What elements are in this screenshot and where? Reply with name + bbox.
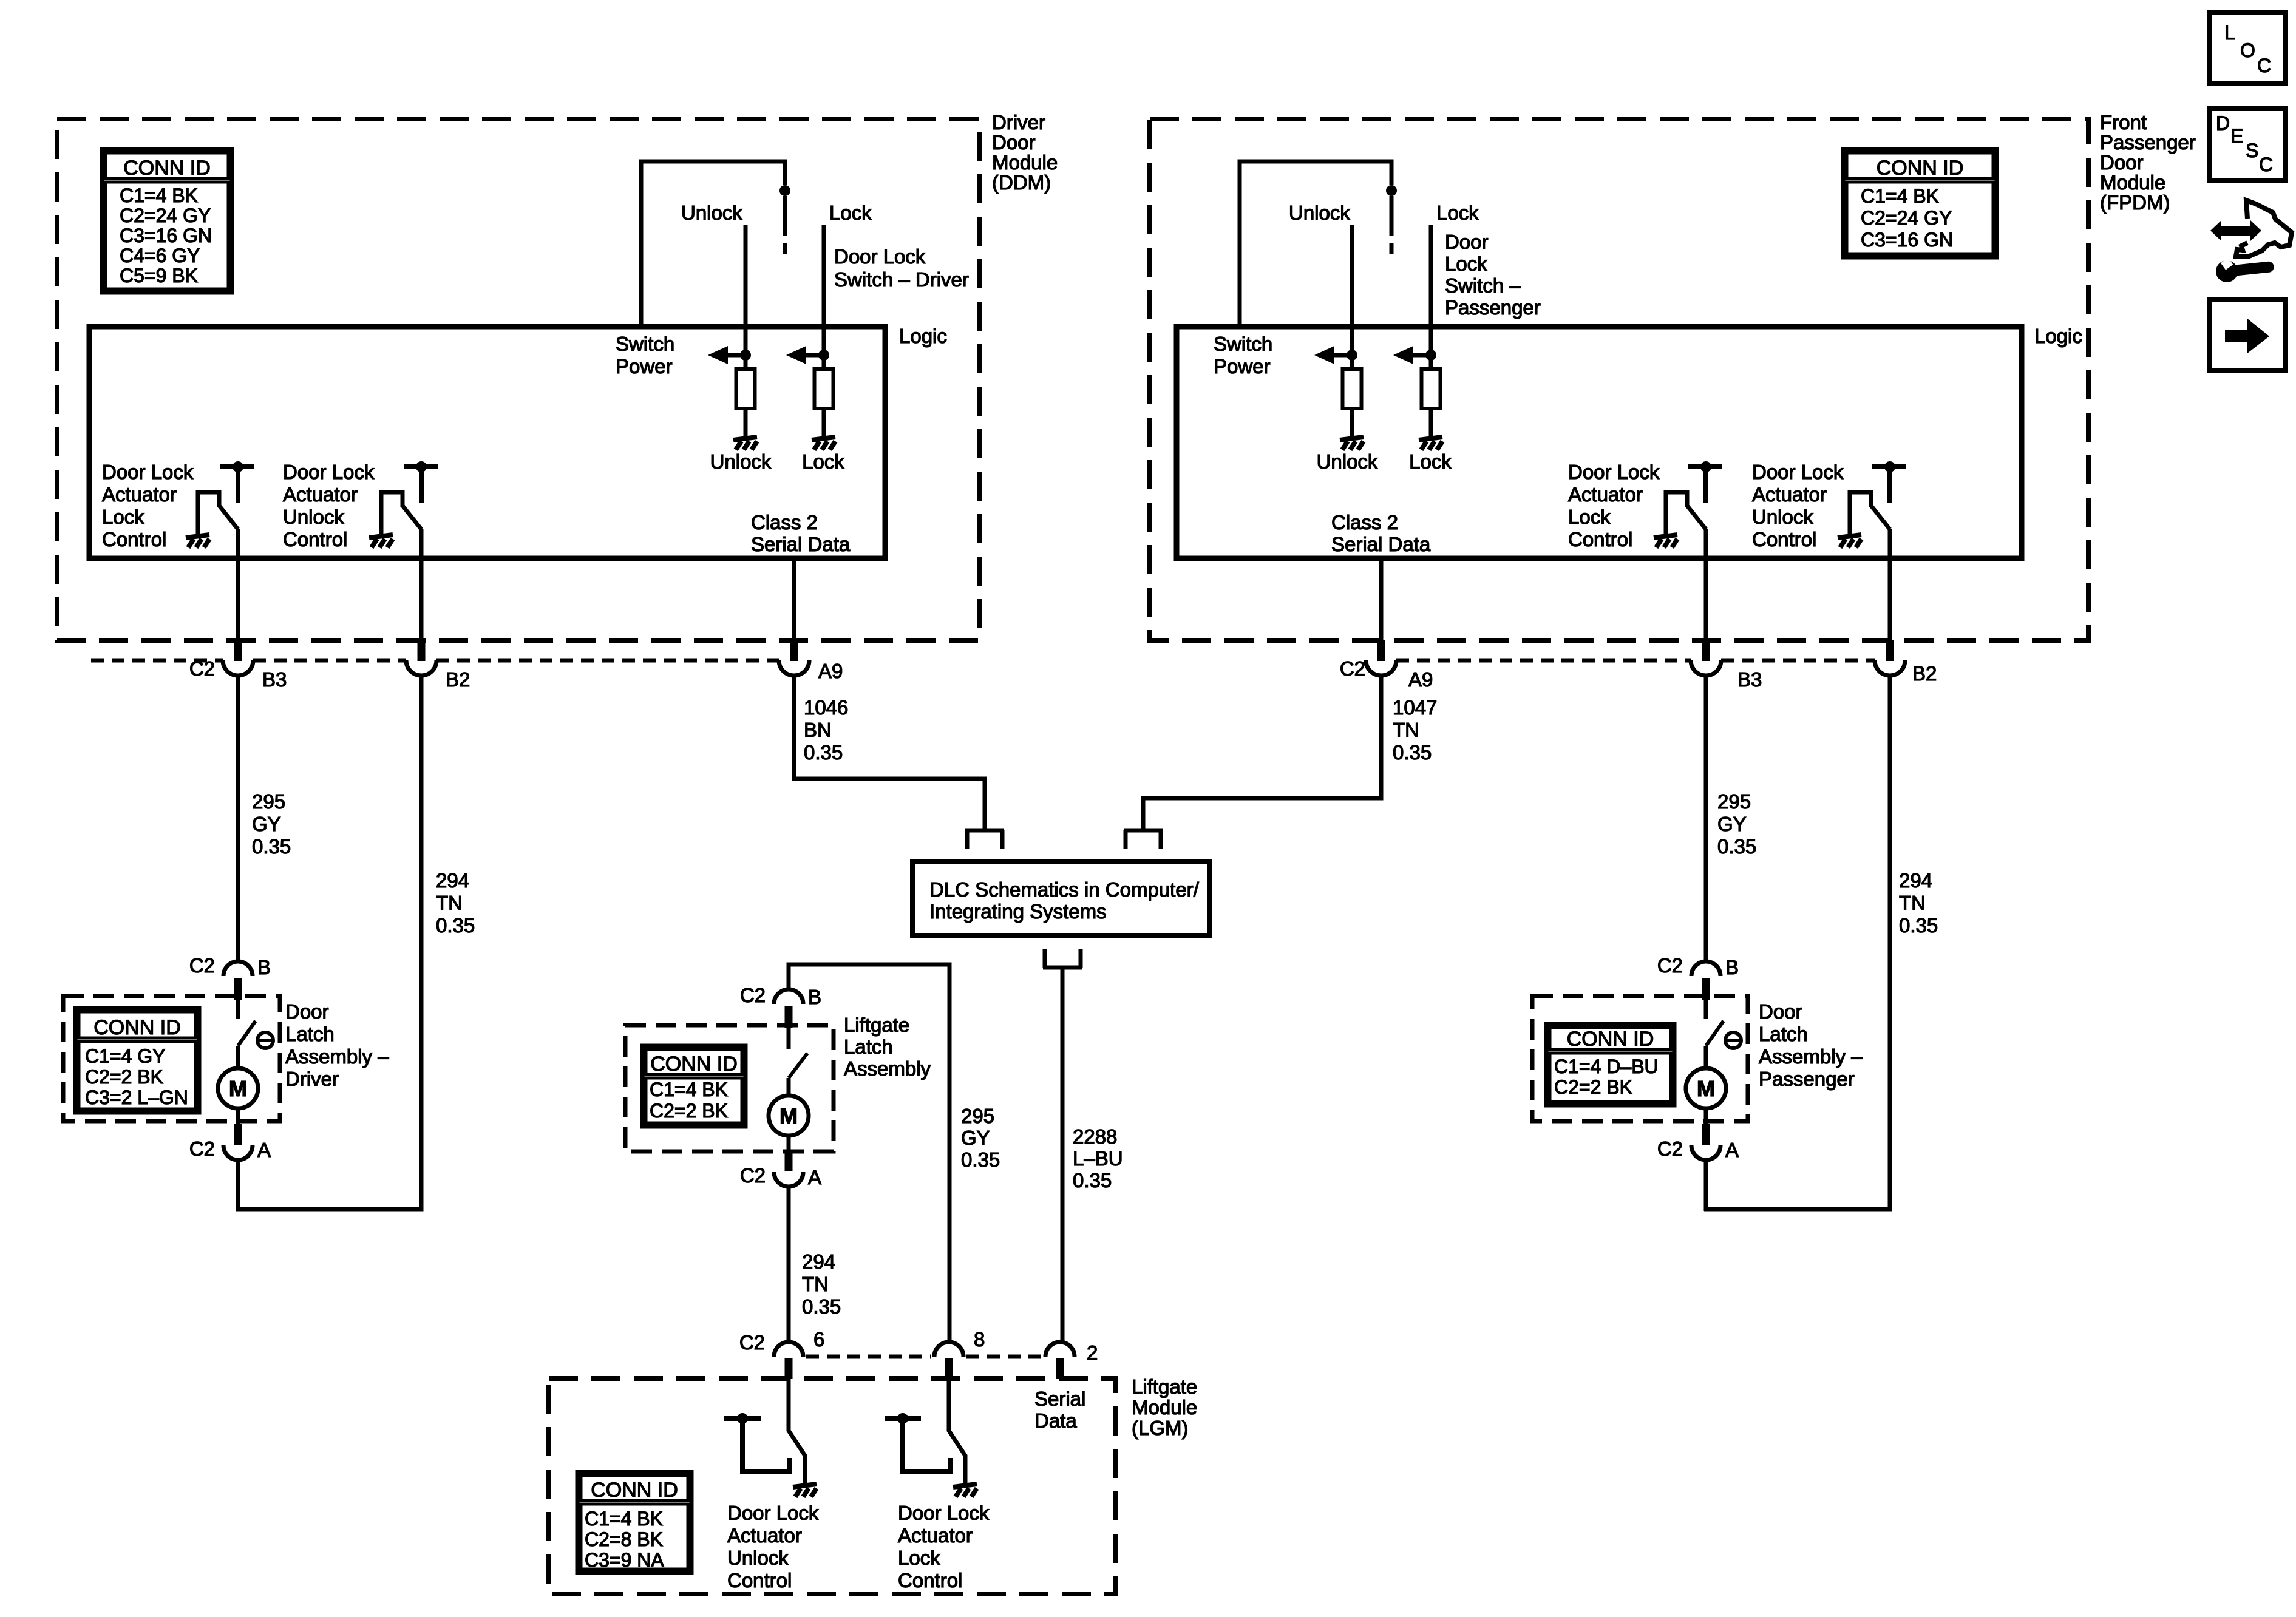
svg-text:A9: A9 bbox=[1408, 668, 1433, 691]
wire 294 TN FPDM B2 to passenger latch return bbox=[1704, 676, 1890, 1209]
svg-text:C1=4 BK: C1=4 BK bbox=[650, 1079, 728, 1100]
label Door Lock Switch - Passenger bbox=[1445, 231, 1541, 319]
wire resistor to ground DDM unlock bbox=[744, 408, 748, 439]
wire 2288 L-BU DLC to LGM pin 2 bbox=[1061, 968, 1065, 1342]
connector id table LGM CONN ID bbox=[577, 1472, 691, 1573]
svg-text:B: B bbox=[808, 986, 821, 1008]
wire resistor to ground DDM lock bbox=[822, 408, 826, 439]
svg-text:Door Lock: Door Lock bbox=[102, 461, 194, 483]
svg-text:Data: Data bbox=[1034, 1409, 1077, 1432]
key cylinder symbol passenger latch bbox=[1725, 1032, 1741, 1048]
ground LGM lock actuator switch bbox=[953, 1484, 977, 1497]
svg-text:Unlock: Unlock bbox=[727, 1547, 789, 1569]
svg-text:B: B bbox=[257, 956, 271, 978]
wire passenger latch pin B stub bbox=[1704, 1000, 1708, 1019]
svg-text:Serial: Serial bbox=[1034, 1388, 1085, 1410]
switch door lock actuator unlock control FPDM bbox=[1850, 461, 1906, 537]
connector C2 pin A driver latch bbox=[223, 1124, 253, 1160]
svg-text:(DDM): (DDM) bbox=[992, 171, 1051, 194]
svg-text:C2: C2 bbox=[1340, 657, 1365, 680]
svg-text:TN: TN bbox=[1393, 719, 1419, 741]
label DLC Schematics in Computer/Integrating Systems bbox=[929, 878, 1200, 923]
wire DDM lock control output to pin B3 bbox=[236, 529, 240, 642]
arrow logic input lock DDM bbox=[786, 346, 829, 364]
svg-text:BN: BN bbox=[804, 719, 832, 741]
harness dotted line DDM bottom bbox=[91, 659, 779, 663]
inline connector plug DLC to 2288 bbox=[1043, 949, 1082, 968]
svg-text:Front: Front bbox=[2100, 111, 2147, 134]
arrow logic input unlock DDM bbox=[708, 346, 751, 364]
svg-text:0.35: 0.35 bbox=[1717, 835, 1756, 858]
label Liftgate Module (LGM) bbox=[1132, 1375, 1197, 1439]
svg-text:Unlock: Unlock bbox=[283, 506, 344, 528]
module box Liftgate Module (LGM) dashed outline bbox=[549, 1378, 1116, 1594]
wire motor to pin A passenger latch bbox=[1704, 1108, 1708, 1125]
wire DDM class 2 serial data to pin A9 bbox=[792, 558, 796, 642]
svg-text:Switch – Driver: Switch – Driver bbox=[834, 268, 969, 291]
label Front Passenger Door Module (FPDM) bbox=[2100, 111, 2196, 214]
connector C2 pin A passenger latch bbox=[1691, 1124, 1720, 1160]
svg-text:E: E bbox=[2230, 125, 2243, 147]
svg-text:Switch –: Switch – bbox=[1445, 274, 1521, 297]
svg-text:Lock: Lock bbox=[102, 506, 144, 528]
svg-text:294: 294 bbox=[802, 1250, 835, 1273]
svg-text:Module: Module bbox=[992, 151, 1058, 174]
svg-text:Class 2: Class 2 bbox=[1331, 511, 1398, 534]
connector id table liftgate latch CONN ID bbox=[642, 1046, 746, 1127]
svg-text:Latch: Latch bbox=[285, 1023, 335, 1045]
label wire 2288 L-BU 0.35 bbox=[1073, 1125, 1123, 1192]
switch blade passenger latch (key cylinder switch) bbox=[1706, 1021, 1724, 1046]
svg-text:CONN ID: CONN ID bbox=[123, 157, 211, 180]
arrow logic input unlock FPDM bbox=[1314, 346, 1357, 364]
wire resistor to ground FPDM lock bbox=[1429, 408, 1433, 439]
label Serial Data LGM bbox=[1034, 1388, 1085, 1432]
logic box DDM bbox=[89, 327, 885, 558]
svg-text:C2=2 BK: C2=2 BK bbox=[650, 1100, 728, 1122]
svg-text:C2=2 BK: C2=2 BK bbox=[85, 1066, 163, 1088]
label Liftgate Latch Assembly bbox=[844, 1014, 931, 1080]
svg-text:2: 2 bbox=[1087, 1341, 1098, 1364]
svg-text:0.35: 0.35 bbox=[802, 1295, 841, 1318]
resistor unlock pulldown DDM bbox=[736, 369, 755, 408]
svg-text:C1=4 BK: C1=4 BK bbox=[585, 1508, 663, 1530]
svg-text:0.35: 0.35 bbox=[961, 1148, 1000, 1171]
svg-text:O: O bbox=[2240, 39, 2255, 61]
label Door Latch Assembly - Driver bbox=[285, 1000, 389, 1090]
svg-text:C2: C2 bbox=[740, 984, 766, 1006]
wire passenger latch pin A down to 294 return bbox=[1704, 1160, 1708, 1211]
svg-text:C2: C2 bbox=[189, 954, 215, 977]
svg-text:CONN ID: CONN ID bbox=[1567, 1028, 1654, 1051]
svg-text:A: A bbox=[808, 1166, 821, 1188]
wire 294 TN DDM B2 to driver latch return bbox=[236, 676, 421, 1209]
module box Door Latch Assembly Passenger dashed outline bbox=[1532, 996, 1748, 1121]
svg-text:C1=4 D–BU: C1=4 D–BU bbox=[1554, 1056, 1659, 1077]
label Class 2 Serial Data DDM bbox=[751, 511, 851, 555]
svg-text:Unlock: Unlock bbox=[681, 202, 742, 224]
svg-text:8: 8 bbox=[974, 1328, 985, 1351]
svg-text:TN: TN bbox=[436, 892, 463, 914]
svg-text:L: L bbox=[2224, 22, 2235, 44]
svg-text:Actuator: Actuator bbox=[283, 483, 358, 506]
icon connector outline bbox=[2236, 200, 2292, 256]
svg-text:TN: TN bbox=[1899, 892, 1926, 914]
connector id table FPDM CONN ID bbox=[1843, 149, 1997, 257]
connector pin B3 (FPDM) bbox=[1691, 640, 1721, 676]
svg-text:C2: C2 bbox=[1657, 1137, 1683, 1160]
label wire 1046 BN 0.35 bbox=[804, 696, 848, 764]
connector pin 6 (LGM C2) bbox=[774, 1342, 803, 1379]
svg-text:Control: Control bbox=[727, 1569, 792, 1592]
svg-text:295: 295 bbox=[252, 790, 285, 813]
svg-text:Actuator: Actuator bbox=[1568, 483, 1643, 506]
svg-text:B3: B3 bbox=[262, 668, 287, 691]
junction dot switch pole DDM bbox=[779, 185, 790, 196]
svg-text:(FPDM): (FPDM) bbox=[2100, 191, 2170, 214]
connector pin B2 (DDM) bbox=[406, 640, 436, 676]
junction dot switch pole FPDM bbox=[1386, 185, 1397, 196]
svg-text:Door Lock: Door Lock bbox=[727, 1502, 819, 1524]
connector id table DDM CONN ID bbox=[102, 149, 232, 293]
svg-text:Door Lock: Door Lock bbox=[283, 461, 375, 483]
module box Driver Door Module (DDM) dashed outline bbox=[57, 119, 979, 640]
svg-text:Control: Control bbox=[102, 528, 166, 551]
svg-text:Lock: Lock bbox=[829, 202, 872, 224]
key cylinder symbol driver latch bbox=[257, 1032, 273, 1048]
ground FPDM lock resistor bbox=[1419, 437, 1442, 450]
switch pole blade FPDM (door lock switch) bbox=[1390, 196, 1394, 236]
svg-text:GY: GY bbox=[252, 813, 281, 835]
svg-text:Unlock: Unlock bbox=[1317, 450, 1378, 473]
svg-text:Power: Power bbox=[616, 355, 673, 378]
label Door Lock Switch - Driver bbox=[834, 245, 969, 291]
svg-text:TN: TN bbox=[802, 1273, 829, 1295]
label Class 2 Serial Data FPDM bbox=[1331, 511, 1431, 555]
svg-text:0.35: 0.35 bbox=[1393, 741, 1432, 764]
wire blade to motor passenger latch bbox=[1704, 1046, 1708, 1068]
module box Front Passenger Door Module (FPDM) dashed outline bbox=[1150, 119, 2088, 640]
label wire 294 TN 0.35 liftgate bbox=[802, 1250, 841, 1318]
motor M liftgate latch actuator bbox=[769, 1096, 809, 1136]
svg-text:GY: GY bbox=[1717, 813, 1747, 835]
wire unlock throw to logic FPDM bbox=[1350, 225, 1354, 369]
connector pin A9 (DDM) bbox=[779, 640, 809, 676]
wire 294 TN liftgate latch pin A to LGM pin 6 bbox=[787, 1187, 791, 1342]
svg-text:B3: B3 bbox=[1737, 668, 1762, 691]
svg-text:L–BU: L–BU bbox=[1073, 1147, 1123, 1170]
svg-text:C3=2 L–GN: C3=2 L–GN bbox=[85, 1086, 188, 1108]
svg-text:Actuator: Actuator bbox=[727, 1524, 802, 1547]
svg-text:Actuator: Actuator bbox=[898, 1524, 973, 1547]
svg-text:295: 295 bbox=[961, 1105, 994, 1127]
svg-text:C3=16 GN: C3=16 GN bbox=[120, 225, 212, 246]
svg-text:Passenger: Passenger bbox=[1445, 296, 1541, 319]
svg-text:C2: C2 bbox=[740, 1164, 766, 1187]
ground DDM unlock actuator switch bbox=[369, 535, 393, 547]
svg-text:(LGM): (LGM) bbox=[1132, 1417, 1189, 1439]
svg-text:M: M bbox=[779, 1103, 798, 1128]
svg-text:2288: 2288 bbox=[1073, 1125, 1117, 1148]
svg-text:Passenger: Passenger bbox=[1759, 1068, 1855, 1090]
wire DDM unlock control output to pin B2 bbox=[419, 529, 424, 642]
wire unlock throw to logic DDM bbox=[744, 225, 748, 369]
svg-text:Control: Control bbox=[1568, 528, 1632, 551]
connector pin B2 (FPDM) bbox=[1875, 640, 1905, 676]
svg-text:DLC Schematics in Computer/: DLC Schematics in Computer/ bbox=[929, 878, 1200, 901]
label Door Lock Actuator Unlock Control DDM bbox=[283, 461, 375, 551]
svg-text:Door: Door bbox=[1759, 1000, 1802, 1023]
ground LGM unlock actuator switch bbox=[793, 1484, 817, 1497]
svg-text:Assembly –: Assembly – bbox=[1759, 1045, 1863, 1068]
svg-text:Integrating Systems: Integrating Systems bbox=[929, 900, 1107, 923]
svg-text:C2=2 BK: C2=2 BK bbox=[1554, 1076, 1632, 1098]
wire lock throw to logic FPDM bbox=[1429, 225, 1433, 369]
wire FPDM class 2 serial data to pin A9 bbox=[1379, 558, 1384, 642]
connector id table driver latch CONN ID bbox=[75, 1008, 199, 1113]
svg-text:Lock: Lock bbox=[1409, 450, 1452, 473]
svg-text:Control: Control bbox=[898, 1569, 962, 1592]
svg-text:C2=24 GY: C2=24 GY bbox=[1861, 207, 1952, 229]
svg-text:Door Lock: Door Lock bbox=[834, 245, 926, 268]
node DLC Schematics in Computer/Integrating Systems box bbox=[912, 861, 1209, 935]
ground DDM unlock resistor bbox=[733, 437, 757, 450]
svg-text:Liftgate: Liftgate bbox=[1132, 1375, 1197, 1398]
svg-text:Class 2: Class 2 bbox=[751, 511, 818, 534]
svg-text:1046: 1046 bbox=[804, 696, 848, 719]
icon LOC box bbox=[2209, 13, 2285, 84]
svg-text:Door: Door bbox=[1445, 231, 1489, 253]
label Door Lock Actuator Lock Control LGM bbox=[898, 1502, 990, 1592]
svg-text:C2=24 GY: C2=24 GY bbox=[120, 205, 211, 226]
svg-text:Latch: Latch bbox=[1759, 1023, 1808, 1045]
switch door lock actuator lock control LGM bbox=[885, 1378, 965, 1485]
svg-text:C1=4 BK: C1=4 BK bbox=[1861, 185, 1939, 207]
svg-text:Liftgate: Liftgate bbox=[844, 1014, 909, 1036]
svg-text:C: C bbox=[2259, 154, 2273, 175]
svg-text:Logic: Logic bbox=[899, 325, 947, 347]
module box Liftgate Latch Assembly dashed outline bbox=[625, 1025, 834, 1151]
open contact dash FPDM switch bbox=[1390, 243, 1394, 254]
arrow logic input lock FPDM bbox=[1393, 346, 1436, 364]
wire FPDM unlock control output to pin B2 bbox=[1888, 529, 1892, 642]
svg-text:Door: Door bbox=[285, 1000, 329, 1023]
label Door Latch Assembly - Passenger bbox=[1759, 1000, 1863, 1090]
svg-text:C2: C2 bbox=[739, 1331, 765, 1354]
wire driver latch pin A down to 294 return bbox=[236, 1160, 240, 1211]
svg-text:Assembly: Assembly bbox=[844, 1057, 931, 1080]
wire FPDM lock control output to pin B3 bbox=[1704, 529, 1708, 642]
switch door lock actuator lock control FPDM bbox=[1666, 461, 1722, 537]
svg-text:C2: C2 bbox=[1657, 954, 1683, 977]
label Driver Door Module (DDM) bbox=[992, 111, 1058, 194]
resistor lock pulldown DDM bbox=[815, 369, 834, 408]
label wire 294 TN 0.35 passenger bbox=[1899, 869, 1938, 937]
svg-text:Switch: Switch bbox=[616, 333, 674, 355]
svg-text:Door Lock: Door Lock bbox=[898, 1502, 990, 1524]
wire 1046 BN DDM A9 to DLC splice bbox=[794, 676, 985, 830]
svg-text:Control: Control bbox=[1752, 528, 1816, 551]
label wire 294 TN 0.35 driver bbox=[436, 869, 475, 937]
connector C2 pin A liftgate latch bbox=[774, 1150, 803, 1187]
harness dotted line FPDM bottom bbox=[1396, 659, 1875, 663]
label Switch Power DDM bbox=[616, 333, 674, 378]
svg-text:Unlock: Unlock bbox=[1289, 202, 1350, 224]
label wire 1047 TN 0.35 bbox=[1393, 696, 1437, 764]
wire switch power feed loop FPDM bbox=[1240, 161, 1391, 327]
svg-text:M: M bbox=[1697, 1076, 1715, 1101]
inline connector plug 1046 to DLC bbox=[965, 830, 1004, 849]
wire resistor to ground FPDM unlock bbox=[1350, 408, 1354, 439]
svg-text:CONN ID: CONN ID bbox=[93, 1016, 181, 1039]
svg-text:0.35: 0.35 bbox=[252, 835, 291, 858]
connector pin 8 (LGM) bbox=[934, 1342, 963, 1379]
wire 1047 TN FPDM A9 to DLC splice bbox=[1143, 676, 1381, 830]
svg-text:D: D bbox=[2216, 112, 2230, 134]
svg-text:B: B bbox=[1725, 956, 1739, 978]
harness dotted line LGM top bbox=[806, 1355, 1042, 1359]
svg-text:0.35: 0.35 bbox=[436, 914, 475, 937]
svg-text:Module: Module bbox=[2100, 171, 2165, 194]
logic box FPDM bbox=[1177, 327, 2022, 558]
svg-text:Serial Data: Serial Data bbox=[1331, 533, 1431, 555]
svg-text:S: S bbox=[2246, 140, 2258, 161]
svg-text:A: A bbox=[1725, 1139, 1739, 1161]
svg-text:Passenger: Passenger bbox=[2100, 131, 2196, 154]
connector C2 pin B driver latch bbox=[223, 961, 253, 1000]
switch pole blade DDM (door lock switch) bbox=[783, 196, 787, 236]
svg-text:Lock: Lock bbox=[802, 450, 844, 473]
connector C2 pin B liftgate latch bbox=[774, 989, 803, 1028]
svg-text:Lock: Lock bbox=[1445, 253, 1487, 275]
connector pin 2 (LGM) bbox=[1045, 1342, 1075, 1379]
switch blade liftgate latch bbox=[789, 1053, 807, 1078]
wire motor to pin A driver latch bbox=[236, 1108, 240, 1125]
svg-text:C4=6 GY: C4=6 GY bbox=[120, 245, 200, 266]
wire liftgate latch top link to 295 GY bbox=[789, 964, 949, 1342]
label Door Lock Actuator Unlock Control FPDM bbox=[1752, 461, 1844, 551]
svg-text:6: 6 bbox=[813, 1328, 824, 1351]
svg-text:C1=4 GY: C1=4 GY bbox=[85, 1045, 166, 1067]
svg-text:C1=4 BK: C1=4 BK bbox=[120, 185, 198, 206]
resistor unlock pulldown FPDM bbox=[1343, 369, 1362, 408]
svg-text:0.35: 0.35 bbox=[1899, 914, 1938, 937]
wire 295 GY FPDM B3 to passenger latch bbox=[1704, 676, 1708, 962]
switch door lock actuator lock control DDM bbox=[198, 461, 254, 537]
svg-text:Door: Door bbox=[992, 131, 1036, 154]
switch blade driver latch (key cylinder switch) bbox=[238, 1021, 256, 1046]
motor M passenger latch lock actuator bbox=[1686, 1068, 1726, 1108]
svg-text:Door: Door bbox=[2100, 151, 2144, 174]
wire 295 GY DDM B3 to driver latch bbox=[236, 676, 240, 962]
svg-text:Driver: Driver bbox=[992, 111, 1045, 134]
svg-text:A: A bbox=[257, 1139, 271, 1161]
wire lock throw to logic DDM bbox=[822, 225, 826, 369]
svg-text:Door Lock: Door Lock bbox=[1568, 461, 1660, 483]
svg-text:Door Lock: Door Lock bbox=[1752, 461, 1844, 483]
svg-text:M: M bbox=[229, 1076, 247, 1101]
svg-text:Unlock: Unlock bbox=[1752, 506, 1813, 528]
wire blade to motor liftgate latch bbox=[787, 1078, 791, 1096]
svg-text:294: 294 bbox=[1899, 869, 1932, 892]
svg-text:Latch: Latch bbox=[844, 1036, 893, 1058]
label Door Lock Actuator Lock Control FPDM bbox=[1568, 461, 1660, 551]
svg-text:Unlock: Unlock bbox=[710, 450, 772, 473]
ground FPDM unlock actuator switch bbox=[1838, 535, 1861, 547]
open contact dash DDM switch bbox=[783, 243, 787, 254]
svg-text:0.35: 0.35 bbox=[1073, 1169, 1112, 1192]
svg-text:C3=9 NA: C3=9 NA bbox=[585, 1549, 664, 1571]
motor M driver latch lock actuator bbox=[218, 1068, 258, 1108]
svg-text:Assembly –: Assembly – bbox=[285, 1045, 389, 1068]
svg-text:Lock: Lock bbox=[1436, 202, 1479, 224]
wire motor to pin A liftgate latch bbox=[787, 1136, 791, 1151]
icon connector test double arrow bbox=[2210, 220, 2261, 241]
connector pin A9 (FPDM C2) bbox=[1366, 640, 1396, 676]
svg-text:Logic: Logic bbox=[2034, 325, 2082, 347]
connector C2 pin B passenger latch bbox=[1691, 961, 1720, 1000]
svg-text:C5=9 BK: C5=9 BK bbox=[120, 265, 198, 286]
wire blade to motor driver latch bbox=[236, 1046, 240, 1068]
icon DESC box bbox=[2209, 109, 2285, 180]
icon forward arrow box bbox=[2210, 300, 2285, 371]
icon wrench bbox=[2215, 253, 2275, 283]
svg-text:1047: 1047 bbox=[1393, 696, 1437, 719]
svg-text:0.35: 0.35 bbox=[804, 741, 843, 764]
svg-text:B2: B2 bbox=[446, 668, 470, 691]
ground FPDM lock actuator switch bbox=[1654, 535, 1677, 547]
switch door lock actuator unlock control LGM bbox=[724, 1378, 805, 1485]
module box Door Latch Assembly Driver dashed outline bbox=[63, 996, 280, 1121]
svg-text:Lock: Lock bbox=[1568, 506, 1611, 528]
svg-text:Lock: Lock bbox=[898, 1547, 940, 1569]
ground FPDM unlock resistor bbox=[1340, 437, 1364, 450]
svg-text:Serial Data: Serial Data bbox=[751, 533, 851, 555]
svg-text:Actuator: Actuator bbox=[102, 483, 177, 506]
connector pin B3 (DDM C2) bbox=[223, 640, 253, 676]
ground DDM lock resistor bbox=[812, 437, 835, 450]
ground DDM lock actuator switch bbox=[186, 535, 209, 547]
svg-text:294: 294 bbox=[436, 869, 469, 892]
svg-text:A9: A9 bbox=[818, 660, 843, 682]
svg-text:C2: C2 bbox=[189, 1137, 215, 1160]
switch door lock actuator unlock control DDM bbox=[381, 461, 438, 537]
svg-text:Module: Module bbox=[1132, 1396, 1197, 1419]
svg-text:Actuator: Actuator bbox=[1752, 483, 1827, 506]
label wire 295 GY 0.35 passenger bbox=[1717, 790, 1756, 858]
svg-text:Control: Control bbox=[283, 528, 347, 551]
svg-text:CONN ID: CONN ID bbox=[1877, 157, 1964, 180]
svg-text:C: C bbox=[2257, 55, 2271, 76]
resistor lock pulldown FPDM bbox=[1422, 369, 1441, 408]
inline connector plug 1047 to DLC bbox=[1124, 830, 1163, 849]
wire driver latch pin B stub bbox=[236, 1000, 240, 1019]
label Door Lock Actuator Unlock Control LGM bbox=[727, 1502, 819, 1592]
label Door Lock Actuator Lock Control DDM bbox=[102, 461, 194, 551]
svg-text:295: 295 bbox=[1717, 790, 1751, 813]
svg-text:C2=8 BK: C2=8 BK bbox=[585, 1528, 663, 1550]
svg-text:B2: B2 bbox=[1912, 662, 1937, 685]
svg-text:Driver: Driver bbox=[285, 1068, 339, 1090]
svg-text:CONN ID: CONN ID bbox=[591, 1479, 678, 1502]
label wire 295 GY 0.35 driver bbox=[252, 790, 291, 858]
wire switch power feed loop DDM bbox=[641, 161, 785, 327]
label Switch Power FPDM bbox=[1214, 333, 1272, 378]
connector id table passenger latch CONN ID bbox=[1546, 1024, 1674, 1105]
label wire 295 GY 0.35 liftgate bbox=[961, 1105, 1000, 1171]
svg-text:CONN ID: CONN ID bbox=[650, 1053, 738, 1076]
svg-text:C3=16 GN: C3=16 GN bbox=[1861, 229, 1953, 251]
